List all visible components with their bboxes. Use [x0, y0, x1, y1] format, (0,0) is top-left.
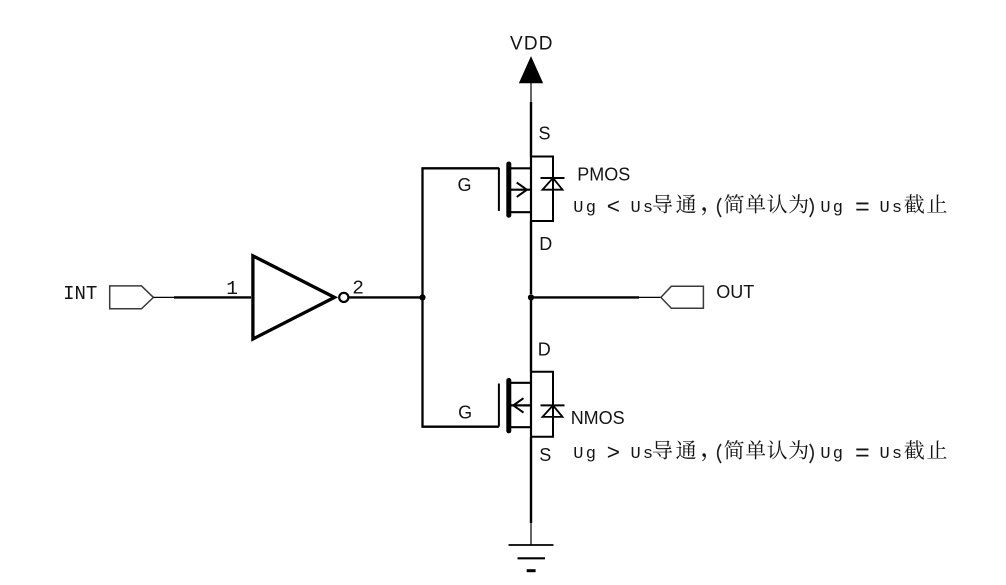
inverter output bubble	[339, 293, 348, 302]
body loop	[531, 157, 553, 222]
svg-text:=: =	[855, 439, 870, 468]
svg-text:S: S	[539, 124, 551, 144]
wire output node to NMOS drain	[530, 297, 532, 371]
source stub	[511, 167, 531, 169]
body diode triangle	[543, 405, 563, 417]
svg-text:Ug: Ug	[573, 445, 598, 464]
op-amp U1 inverter triangle	[253, 256, 335, 339]
svg-text:D: D	[538, 340, 551, 360]
connector INT flag	[110, 286, 154, 309]
wire bus to NMOS gate	[421, 426, 499, 428]
S-D vertical line	[530, 157, 532, 222]
channel bar	[506, 381, 511, 431]
svg-text:PMOS: PMOS	[577, 164, 630, 184]
svg-text:Us: Us	[880, 445, 905, 464]
junction gate bus	[419, 294, 425, 300]
channel bar	[506, 164, 511, 215]
svg-text:G: G	[458, 175, 472, 195]
annotation line 2: Ug > Us conduct	[573, 439, 904, 468]
svg-text:INT: INT	[63, 283, 97, 305]
body diode triangle	[543, 178, 563, 190]
wire inverter output to gate bus	[348, 296, 422, 298]
transistor Q1 PMOS	[499, 157, 565, 222]
junction output node	[528, 294, 534, 300]
wire bus to PMOS gate	[421, 167, 499, 169]
svg-text:Us: Us	[631, 445, 656, 464]
bulk stub with arrow	[511, 404, 531, 406]
wire NMOS source to ground	[530, 437, 532, 523]
transistor Q2 NMOS	[499, 372, 565, 437]
ground	[509, 545, 554, 571]
wire output node to OUT	[531, 296, 639, 298]
drain stub	[511, 211, 531, 213]
wire PMOS drain to output node	[530, 221, 532, 294]
svg-text:NMOS: NMOS	[571, 408, 625, 428]
gate plate	[498, 168, 500, 211]
drain stub	[511, 382, 531, 384]
svg-text:S: S	[539, 445, 551, 465]
D-S vertical line	[530, 372, 532, 437]
gate plate	[498, 384, 500, 427]
svg-text:VDD: VDD	[510, 33, 554, 54]
svg-text:>: >	[607, 441, 621, 467]
wire gate bus vertical	[421, 168, 423, 427]
svg-text:=: =	[855, 193, 870, 222]
node VDD power symbol	[520, 58, 542, 102]
connector OUT flag	[661, 286, 704, 308]
source stub	[511, 426, 531, 428]
svg-text:OUT: OUT	[716, 282, 754, 302]
svg-text:<: <	[607, 195, 621, 221]
svg-text:Ug: Ug	[820, 445, 845, 464]
wire INT to inverter input	[153, 296, 176, 298]
svg-text:D: D	[539, 234, 552, 254]
body loop	[531, 372, 553, 437]
svg-text:1: 1	[226, 278, 238, 300]
svg-text:Us: Us	[880, 199, 905, 218]
annotation line 1: Ug < Us conduct	[573, 193, 904, 222]
body diode cathode bar	[541, 177, 565, 179]
svg-text:Ug: Ug	[573, 199, 598, 218]
svg-text:G: G	[458, 403, 472, 423]
bulk stub with arrow	[511, 189, 531, 191]
wire VDD to PMOS source	[530, 102, 532, 157]
svg-text:Ug: Ug	[820, 199, 845, 218]
body diode cathode bar	[541, 404, 565, 406]
svg-text:Us: Us	[631, 199, 656, 218]
